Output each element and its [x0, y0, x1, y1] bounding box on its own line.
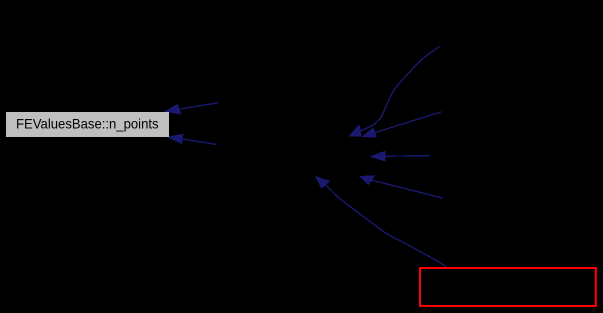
svg-text:FEValuesBase::n_points: FEValuesBase::n_points: [16, 116, 159, 132]
